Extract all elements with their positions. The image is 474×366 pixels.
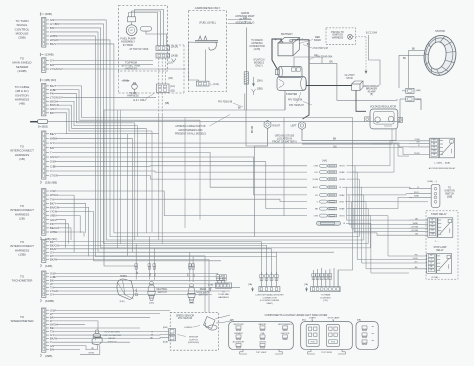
- wire: [56, 44, 355, 233]
- svg-text:LIGHTS: LIGHTS: [259, 341, 267, 343]
- svg-text:GN: GN: [416, 142, 420, 144]
- svg-text:P&A: P&A: [261, 332, 266, 335]
- wire: [352, 197, 412, 208]
- svg-text:BAND: BAND: [314, 39, 321, 42]
- wire: [55, 273, 218, 275]
- wire: [53, 327, 140, 329]
- wire: [58, 290, 230, 292]
- wire: [56, 165, 307, 168]
- svg-text:[141B]: [141B]: [171, 55, 178, 58]
- wire: [56, 323, 85, 325]
- svg-text:BE: BE: [430, 266, 432, 268]
- wire: [58, 207, 89, 256]
- wire: [53, 286, 240, 288]
- wire: [254, 146, 256, 237]
- wire: [342, 187, 361, 263]
- svg-text:BN: BN: [50, 347, 54, 351]
- svg-text:BN: BN: [50, 146, 54, 150]
- svg-text:(LOCATED UNDER: (LOCATED UNDER: [260, 299, 280, 302]
- svg-text:STOP LAMP: STOP LAMP: [433, 246, 447, 249]
- battery cables: [272, 39, 310, 119]
- wire: [352, 141, 409, 166]
- svg-text:(134B): (134B): [45, 53, 54, 57]
- svg-text:[1A]: [1A]: [171, 85, 175, 88]
- fuel tank harness connectors 141A/141B: [129, 46, 178, 63]
- wire: [347, 166, 356, 233]
- wire: [318, 239, 364, 241]
- svg-text:O/W: O/W: [314, 166, 319, 168]
- svg-text:}– (141): }– (141): [211, 83, 220, 86]
- svg-text:R/GY: R/GY: [414, 192, 420, 194]
- wire: [56, 40, 326, 237]
- wire: [60, 99, 400, 122]
- svg-text:TOP VIEW: TOP VIEW: [256, 352, 268, 354]
- svg-text:BK: BK: [50, 111, 54, 115]
- svg-text:GY: GY: [431, 230, 434, 232]
- svg-text:GN/GY: GN/GY: [50, 155, 59, 159]
- svg-text:O/V: O/V: [314, 172, 318, 174]
- svg-text:R/BK: R/BK: [340, 195, 346, 197]
- svg-text:BREAKER: BREAKER: [366, 88, 377, 91]
- svg-text:STUD: STUD: [346, 77, 353, 80]
- svg-text:[140]: [140]: [120, 301, 125, 303]
- wire: [56, 249, 271, 275]
- wire: [53, 348, 80, 350]
- svg-text:W: W: [151, 335, 153, 337]
- wire: [52, 152, 307, 187]
- wire: [53, 294, 212, 296]
- inline connectors 4A column: [312, 159, 345, 225]
- svg-text:O/GN: O/GN: [312, 179, 318, 181]
- connector J8 left column: [10, 308, 57, 358]
- connector J5 left column: [10, 189, 59, 241]
- svg-text:R/BE: R/BE: [340, 209, 346, 211]
- svg-text:REAR: REAR: [200, 288, 207, 291]
- svg-text:O/W: O/W: [188, 273, 190, 277]
- svg-text:GN: GN: [314, 55, 318, 57]
- wire: [228, 23, 252, 25]
- wire: [58, 228, 71, 240]
- svg-text:Y/GN: Y/GN: [412, 258, 418, 260]
- wire: [199, 120, 201, 220]
- svg-text:[17B]: [17B]: [208, 285, 213, 287]
- EFI harness boot: [122, 80, 140, 98]
- svg-text:[29B]: [29B]: [257, 89, 263, 91]
- wire: [53, 242, 261, 275]
- svg-text:PU/W: PU/W: [414, 153, 419, 155]
- wire: [52, 313, 160, 315]
- svg-text:[4-P6]: [4-P6]: [254, 48, 261, 51]
- wire: [53, 148, 409, 155]
- svg-text:V: V: [317, 202, 319, 204]
- wire: [362, 262, 409, 264]
- svg-text:SENSOR: SENSOR: [189, 337, 199, 339]
- svg-text:R/W: R/W: [340, 202, 345, 204]
- wire: [314, 243, 369, 245]
- svg-text:START RELAY: START RELAY: [431, 213, 447, 216]
- svg-text:[8C]: [8C]: [302, 319, 306, 321]
- svg-text:[4A6]: [4A6]: [416, 98, 421, 101]
- svg-text:(4B): (4B): [19, 102, 25, 106]
- svg-text:[141A]: [141A]: [171, 46, 178, 49]
- svg-text:LEFT: LEFT: [291, 125, 297, 128]
- svg-text:CARBURETED ONLY: CARBURETED ONLY: [195, 6, 221, 10]
- wire: [352, 201, 428, 203]
- wire: [58, 24, 314, 244]
- ground studs: [252, 121, 396, 149]
- svg-text:BK: BK: [431, 219, 434, 221]
- starter BN wire: [294, 55, 397, 100]
- svg-text:(30B): (30B): [45, 12, 52, 16]
- connector J1 left column: [15, 12, 59, 47]
- starter motor: [275, 57, 306, 110]
- svg-text:R/GN: R/GN: [340, 179, 346, 181]
- svg-text:[1B]: [1B]: [169, 78, 173, 80]
- svg-text:TN: TN: [433, 154, 436, 156]
- wire: [53, 330, 168, 332]
- svg-text:LT/GN/GY: LT/GN/GY: [50, 67, 63, 71]
- wire: [53, 113, 158, 134]
- svg-text:[7B]: [7B]: [324, 300, 328, 302]
- wire: [117, 110, 119, 248]
- wire: [58, 176, 307, 179]
- svg-text:IGNITION: IGNITION: [281, 333, 290, 335]
- main circuit breaker 40A: [364, 32, 421, 110]
- svg-text:R: R: [340, 187, 342, 189]
- carbureted fuel level sender: [189, 6, 227, 92]
- svg-text:[65B]: [65B]: [163, 327, 168, 329]
- svg-text:}– [30B] ← [30A]: }– [30B] ← [30A]: [434, 161, 450, 164]
- svg-text:BK: BK: [307, 44, 311, 46]
- wire: [56, 195, 74, 252]
- svg-text:OUTPUT: OUTPUT: [189, 339, 199, 341]
- speed sensor: [163, 312, 219, 350]
- svg-text:B CC GN4: B CC GN4: [366, 32, 378, 34]
- wire: [355, 233, 409, 235]
- wire: [366, 268, 409, 270]
- svg-text:(14B): (14B): [45, 264, 52, 268]
- wire: [120, 110, 122, 244]
- wire: [346, 223, 409, 273]
- svg-text:(1B): (1B): [19, 157, 25, 161]
- wire: [347, 187, 410, 220]
- battery: [275, 32, 304, 56]
- svg-text:[5]: [5]: [370, 94, 373, 96]
- svg-text:TO: TO: [222, 291, 225, 293]
- start relay dashed enclosure: [426, 211, 458, 279]
- wire: [56, 109, 152, 131]
- svg-text:PRESENT ON ALL MODELS: PRESENT ON ALL MODELS: [175, 132, 206, 135]
- svg-text:BK/GN: BK/GN: [252, 126, 254, 133]
- wire: [56, 90, 200, 120]
- svg-text:BE: BE: [315, 209, 318, 211]
- svg-text:P/N 74420-95: P/N 74420-95: [178, 318, 193, 320]
- switch wire bullet connectors: [135, 264, 195, 269]
- wire: [246, 110, 255, 146]
- wire: [53, 224, 68, 244]
- part number notes: [218, 100, 312, 107]
- svg-text:TACHOMETER: TACHOMETER: [12, 279, 34, 283]
- wire: [352, 202, 410, 229]
- svg-text:V: V: [50, 169, 52, 173]
- svg-text:STOP LIGHT: STOP LIGHT: [196, 292, 210, 294]
- wire: [56, 134, 127, 257]
- svg-text:TO: TO: [448, 188, 451, 190]
- wire: [58, 157, 307, 195]
- svg-text:INST/TURN: INST/TURN: [233, 324, 244, 326]
- EFI tank harness dashed wires: [122, 58, 173, 84]
- svg-text:R: R: [344, 223, 346, 225]
- svg-text:Y: Y: [431, 259, 433, 261]
- wire label: [244, 22, 247, 24]
- svg-text:VOLTAGE REGULATOR: VOLTAGE REGULATOR: [370, 106, 397, 109]
- svg-text:BK/W: BK/W: [50, 258, 58, 262]
- svg-text:SPEED SENSOR: SPEED SENSOR: [176, 315, 194, 317]
- wire: [184, 118, 186, 228]
- wire: [53, 28, 321, 248]
- svg-text:TOP VIEW: TOP VIEW: [321, 352, 333, 354]
- connector J4 left column: [10, 131, 59, 185]
- wire: [55, 191, 284, 216]
- AM/FM antenna mast: [235, 12, 265, 110]
- svg-text:BATTERY: BATTERY: [281, 32, 293, 36]
- wire label: [150, 338, 153, 340]
- stop lamp relay: [409, 246, 452, 279]
- svg-text:BK/O: BK/O: [313, 187, 319, 189]
- svg-text:TO REAR: TO REAR: [321, 294, 331, 297]
- wire: [53, 59, 153, 61]
- ignition switch connector 33A: [409, 180, 455, 207]
- svg-text:[131]: [131]: [149, 302, 154, 304]
- svg-text:GY: GY: [431, 227, 434, 229]
- svg-text:IN TANK: IN TANK: [123, 43, 134, 47]
- wire: [52, 321, 98, 330]
- wire: [56, 36, 276, 257]
- svg-text:FP: FP: [130, 30, 133, 32]
- neutral switch: [148, 237, 168, 305]
- svg-text:[29A]: [29A]: [257, 80, 263, 83]
- svg-text:HARNESS: HARNESS: [218, 296, 229, 299]
- wire: [56, 337, 168, 340]
- wire: [322, 247, 371, 249]
- wire: [354, 209, 409, 232]
- connector J6 left column: [10, 240, 59, 269]
- wire: [284, 118, 307, 216]
- svg-text:LT/GN: LT/GN: [50, 174, 58, 178]
- svg-text:P/N 70071-97: P/N 70071-97: [314, 47, 329, 50]
- svg-text:ONLY): ONLY): [255, 65, 262, 68]
- svg-text:W/BE: W/BE: [50, 230, 57, 234]
- wire: [56, 212, 93, 261]
- start relay: [409, 213, 453, 243]
- EFI only connector: [133, 84, 174, 114]
- svg-text:(FUEL LEVEL): (FUEL LEVEL): [199, 22, 216, 25]
- svg-text:[33A] —❬: [33A] —❬: [428, 180, 438, 183]
- svg-text:TOUR-PAK: TOUR-PAK: [218, 293, 230, 296]
- svg-text:Y: Y: [50, 150, 52, 154]
- wire: [56, 138, 132, 252]
- wire: [161, 114, 163, 244]
- svg-text:R/Y: R/Y: [194, 273, 196, 277]
- connector J7 left column: [12, 271, 58, 303]
- svg-text:NEUTRAL: NEUTRAL: [157, 288, 168, 291]
- svg-text:B+ (B1B): B+ (B1B): [38, 126, 48, 129]
- wire: [52, 171, 307, 172]
- svg-text:SPEEDOMETER: SPEEDOMETER: [10, 319, 34, 323]
- svg-text:RIGHT: RIGHT: [273, 125, 281, 128]
- wire: [244, 94, 246, 111]
- wire: [347, 172, 358, 259]
- wire: [56, 220, 65, 248]
- svg-text:W: W: [431, 270, 433, 272]
- wire: [52, 256, 205, 312]
- svg-text:BK/V: BK/V: [50, 42, 57, 46]
- wire: [94, 260, 222, 262]
- wire: [53, 20, 317, 240]
- svg-text:STARTER: STARTER: [286, 93, 298, 96]
- svg-text:[4A6]: [4A6]: [416, 89, 421, 92]
- wire: [345, 202, 366, 269]
- svg-text:W/BK: W/BK: [50, 136, 57, 140]
- svg-text:BN: BN: [433, 143, 436, 145]
- svg-text:W/BK: W/BK: [413, 223, 419, 225]
- trip odometer reset switch: [80, 330, 122, 355]
- svg-text:O/W: O/W: [314, 216, 319, 218]
- wire: [357, 259, 409, 261]
- horn: [117, 244, 139, 303]
- wire: [56, 275, 221, 277]
- svg-text:40 AMP: 40 AMP: [367, 90, 376, 93]
- svg-text:(GROUND): (GROUND): [188, 342, 199, 344]
- wire: [326, 236, 360, 238]
- antenna cable callout: [175, 115, 230, 136]
- svg-text:GN: GN: [433, 140, 436, 142]
- svg-text:[33B]: [33B]: [447, 197, 453, 199]
- tour-pak speaker connector 17B: [208, 275, 232, 299]
- svg-text:W: W: [432, 223, 434, 225]
- svg-text:(39B): (39B): [45, 354, 52, 358]
- svg-text:PK: PK: [430, 255, 433, 257]
- wire label: [243, 18, 248, 20]
- svg-text:}– ←: }– ←: [435, 241, 440, 243]
- wire: [62, 96, 156, 98]
- svg-text:O-RING: O-RING: [184, 327, 192, 329]
- svg-text:W/GN: W/GN: [89, 353, 95, 355]
- wire: [53, 94, 134, 123]
- svg-text:E.F.I. ONLY: E.F.I. ONLY: [133, 99, 146, 102]
- wire: [372, 144, 409, 156]
- wire: [347, 216, 371, 248]
- svg-text:AT TOP OF TANK: AT TOP OF TANK: [129, 48, 148, 51]
- stator: [403, 30, 459, 78]
- svg-text:START: START: [309, 316, 316, 319]
- svg-text:(1B) (9B): (1B) (9B): [45, 181, 57, 185]
- svg-text:R/BE: R/BE: [340, 172, 346, 174]
- svg-text:SWITCH: SWITCH: [157, 292, 166, 294]
- wire: [53, 346, 97, 350]
- svg-text:P/N 70045-97: P/N 70045-97: [289, 104, 304, 107]
- wire: [352, 194, 412, 195]
- svg-text:[9B]: [9B]: [165, 103, 169, 105]
- svg-text:[2A]: [2A]: [248, 283, 252, 286]
- svg-text:BE/Y: BE/Y: [50, 132, 57, 136]
- svg-text:(108B): (108B): [45, 299, 54, 303]
- svg-text:CONNECTOR: CONNECTOR: [262, 297, 276, 299]
- wire: [347, 179, 360, 236]
- svg-text:BAT/KEY: BAT/KEY: [259, 323, 268, 326]
- svg-text:GY/GN: GY/GN: [411, 230, 418, 232]
- wire: [56, 259, 209, 312]
- svg-text:HARNESS: HARNESS: [332, 37, 344, 40]
- svg-text:BK: BK: [238, 108, 242, 110]
- wire label: [152, 331, 154, 333]
- svg-text:GY: GY: [430, 262, 433, 264]
- wire label: [151, 335, 153, 337]
- wire: [228, 19, 252, 21]
- wire: [56, 86, 352, 287]
- ignition harness pigtail: [326, 28, 367, 74]
- relay block panel: [301, 316, 353, 354]
- wire: [52, 32, 334, 252]
- accessories/ignition relay: [409, 138, 456, 170]
- svg-text:BN: BN: [330, 61, 334, 63]
- svg-text:CB/RADIO: CB/RADIO: [234, 332, 244, 335]
- svg-text:IGNITION: IGNITION: [444, 191, 455, 193]
- svg-text:[7A]: [7A]: [304, 283, 308, 286]
- connector J2 left column: [12, 53, 62, 73]
- svg-text:LIGHTING: LIGHTING: [320, 297, 331, 299]
- wire: [53, 143, 409, 147]
- wire: [347, 209, 369, 244]
- wire: [62, 68, 186, 70]
- wire: [58, 245, 267, 274]
- wire: [352, 187, 412, 189]
- svg-text:[123A] ←: [123A] ←: [432, 276, 441, 279]
- svg-text:HARNESS: HARNESS: [125, 67, 138, 71]
- svg-text:[121]: [121]: [189, 302, 194, 304]
- wire: [53, 334, 168, 336]
- wire: [56, 203, 85, 233]
- svg-text:RELAY: RELAY: [436, 249, 444, 252]
- svg-text:SEAT): SEAT): [266, 302, 273, 305]
- svg-text:(2B): (2B): [19, 216, 25, 220]
- svg-text:ANTENNA CABLE PART OF: ANTENNA CABLE PART OF: [175, 125, 206, 128]
- svg-text:[4B] [4C]: [4B] [4C]: [45, 78, 57, 82]
- fuse block panel: [229, 314, 328, 354]
- svg-text:BN: BN: [333, 139, 337, 141]
- svg-text:P/N 70081-96: P/N 70081-96: [288, 100, 303, 102]
- wire: [52, 283, 228, 285]
- svg-text:ACCESSORIES/IGN RELAY: ACCESSORIES/IGN RELAY: [429, 167, 456, 170]
- rear stop light switch: [188, 252, 211, 304]
- svg-text:R/GY: R/GY: [340, 216, 346, 218]
- svg-text:GN: GN: [431, 234, 434, 236]
- wire: [347, 195, 364, 240]
- svg-text:(134B): (134B): [17, 69, 26, 73]
- svg-text:GY/GN: GY/GN: [411, 227, 418, 229]
- wire: [352, 143, 409, 172]
- wire: [53, 64, 153, 66]
- wire: [58, 105, 147, 128]
- battery part numbers: [299, 36, 333, 60]
- wire: [56, 232, 84, 237]
- fuel pump assembly in tank (EFI): [119, 6, 168, 72]
- svg-text:R: R: [434, 147, 436, 149]
- wire: [55, 309, 170, 311]
- wire: [158, 114, 160, 240]
- svg-text:GN: GN: [415, 234, 419, 236]
- svg-text:MAIN CIRCUIT: MAIN CIRCUIT: [364, 85, 380, 88]
